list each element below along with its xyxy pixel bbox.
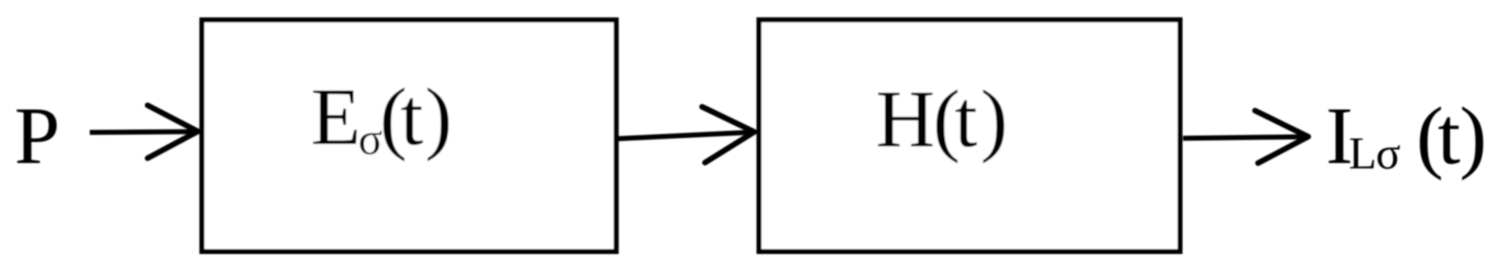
svg-text:L: L [1349,128,1377,179]
block E_sigma(t) [202,20,616,252]
label H(t) [876,73,1008,164]
wire: input arrow shaft [90,129,195,135]
svg-text:t: t [401,71,424,162]
arrowhead into block E [148,105,198,158]
svg-text:H: H [876,73,935,164]
svg-text:t: t [955,73,978,164]
svg-text:P: P [14,90,60,181]
svg-text:t: t [1438,90,1461,181]
label E_sigma(t) [311,71,452,164]
svg-text:): ) [425,71,452,162]
node I_L_sigma(t) (output label) [1326,90,1487,181]
arrowhead into block H [702,107,754,163]
svg-text:): ) [981,73,1008,164]
svg-text:E: E [311,71,361,162]
output arrowhead [1255,111,1308,164]
svg-text:σ: σ [1376,128,1401,179]
wire: arrow block E to block H, shaft [617,132,751,139]
block H(t) [759,20,1180,252]
svg-text:): ) [1460,90,1487,181]
wire: output arrow shaft [1183,137,1306,138]
